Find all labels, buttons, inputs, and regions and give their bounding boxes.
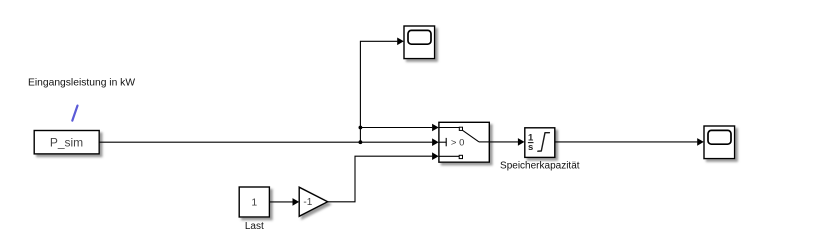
block P_sim bbox=[34, 131, 99, 154]
annotation slash (blue) bbox=[72, 106, 77, 121]
fraction bar bbox=[528, 142, 534, 144]
integrator block Speicherkapazität bbox=[525, 128, 555, 158]
wire constant to gain bbox=[269, 198, 299, 206]
junction node on vertical branch bbox=[359, 126, 363, 130]
label Speicherkapazität bbox=[500, 160, 580, 171]
constant block 1 bbox=[239, 187, 269, 217]
integral sign bbox=[538, 133, 550, 152]
scope Scope (right) bbox=[704, 126, 735, 159]
lever to output bbox=[479, 141, 489, 143]
svg-text:Speicherkapazität: Speicherkapazität bbox=[500, 160, 580, 171]
wire vertical branch up to scope bbox=[360, 38, 403, 143]
wire integrator to scope bbox=[555, 138, 704, 146]
middle input stub bbox=[439, 141, 447, 143]
top input stub bbox=[439, 127, 460, 129]
junction node on main wire bbox=[359, 140, 363, 144]
annotation text "Eingangsleistung in kW" bbox=[28, 78, 135, 89]
label Last bbox=[245, 221, 264, 232]
wire P_sim to switch middle input bbox=[99, 138, 439, 146]
bottom port square bbox=[459, 155, 462, 158]
gain block -1 bbox=[299, 187, 328, 216]
wire gain to switch bottom input bbox=[328, 152, 439, 201]
bottom input stub bbox=[439, 155, 460, 157]
top port square bbox=[459, 127, 462, 130]
svg-text:Eingangsleistung in kW: Eingangsleistung in kW bbox=[28, 78, 135, 89]
scope Scope1 (top) bbox=[404, 26, 435, 59]
svg-text:s: s bbox=[528, 142, 533, 153]
wire switch to integrator bbox=[489, 138, 524, 146]
svg-text:1: 1 bbox=[251, 197, 257, 209]
switch block bbox=[439, 122, 489, 162]
switch lever diagonal bbox=[463, 130, 480, 142]
wire branch to switch top input bbox=[360, 124, 438, 132]
svg-text:-1: -1 bbox=[303, 197, 312, 208]
svg-text:Last: Last bbox=[245, 221, 264, 232]
svg-text:> 0: > 0 bbox=[451, 138, 464, 149]
svg-text:P_sim: P_sim bbox=[50, 135, 83, 149]
threshold tick bbox=[445, 138, 447, 146]
